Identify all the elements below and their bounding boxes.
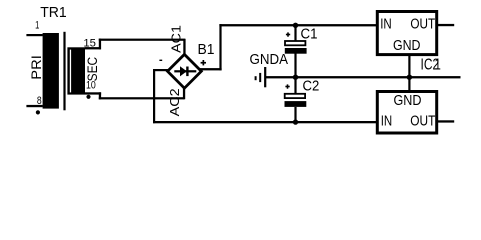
svg-text:PRI: PRI [28,55,44,80]
wire pin 15 to AC1 [85,39,186,56]
positive plate [285,41,305,45]
wire pin 8 [26,105,42,107]
primary phase dot [36,110,40,114]
diode triangle [180,66,187,76]
svg-text:GND: GND [394,92,422,109]
positive plate [285,94,305,98]
top stub [294,26,296,41]
svg-text:OUT: OUT [410,15,435,32]
svg-text:1: 1 [435,57,441,74]
secondary winding [67,47,85,94]
svg-text:GNDA: GNDA [250,51,289,68]
diode cathode bar [186,67,188,77]
node bottom rail C2 junction [293,119,298,124]
diode line [174,70,196,72]
core [63,32,65,111]
minus mark [159,60,162,61]
plus mark [286,32,290,36]
wire pin 10 to AC2 [85,87,185,99]
node regulator ground junction [407,75,412,80]
wire top rail [219,24,377,26]
bridge rectifier B1 [159,25,214,116]
svg-text:AC1: AC1 [169,25,183,53]
svg-text:C1: C1 [301,26,318,43]
wire bridge plus to top rail [200,24,222,70]
svg-text:B1: B1 [198,41,215,58]
wire pin 1 [26,34,42,36]
secondary phase dot [86,95,90,99]
wire bottom rail [153,121,378,123]
svg-text:SEC: SEC [84,57,100,82]
svg-text:GND: GND [393,37,421,54]
wire bridge minus to bottom rail [153,69,169,123]
ground GNDA [250,51,289,87]
transformer TR1 [28,4,100,115]
wire middle rail GNDA [266,76,461,78]
capacitor C1 [285,26,318,77]
wire IC2 OUT stub [438,120,454,122]
svg-text:IN: IN [381,112,393,129]
top stub [294,78,296,93]
regulator IC1 [377,12,436,55]
bottom stub [294,54,296,78]
node top rail C1 junction [293,23,298,28]
diamond body [168,54,202,88]
regulator IC2 [377,92,436,134]
svg-text:1: 1 [35,20,39,32]
capacitor C2 [285,77,320,122]
primary winding [43,33,59,109]
negative plate [285,48,307,54]
svg-text:AC2: AC2 [168,88,182,116]
bottom stub [294,107,296,122]
plus mark [201,60,206,65]
wire regulator GND vertical [408,56,410,90]
svg-text:IN: IN [380,15,392,32]
node middle rail junction [293,75,298,80]
svg-text:C2: C2 [303,77,320,94]
svg-text:OUT: OUT [410,112,435,129]
plus mark [285,84,289,88]
svg-text:TR1: TR1 [40,4,66,21]
wire IC1 OUT stub [438,24,454,26]
negative plate [285,101,307,107]
